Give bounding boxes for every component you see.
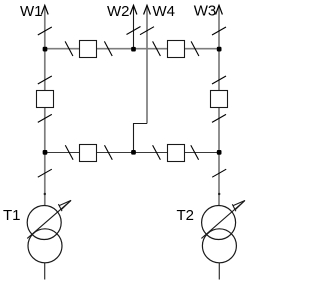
svg-text:W1: W1 [20, 3, 43, 20]
svg-text:T2: T2 [177, 207, 195, 224]
svg-text:W3: W3 [194, 3, 217, 20]
svg-text:W2: W2 [107, 3, 130, 20]
svg-text:W4: W4 [153, 3, 176, 20]
svg-text:T1: T1 [3, 207, 21, 224]
